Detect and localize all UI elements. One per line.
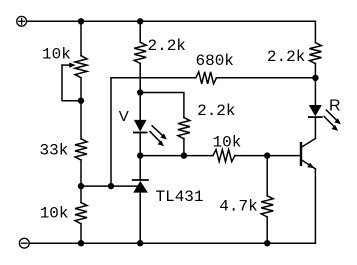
node 2.2k mid bottom: [181, 152, 187, 158]
wire left branch top: [80, 21, 82, 55]
wire: [266, 217, 268, 243]
node base: [264, 152, 270, 158]
node ref left: [78, 183, 84, 189]
wire V branch top: [139, 21, 141, 42]
wire top rail: [27, 21, 315, 42]
node ref mid: [108, 183, 114, 189]
wire: [139, 193, 141, 244]
node 680k right: [312, 75, 318, 81]
node bottom-left: [78, 240, 84, 246]
svg-text:4.7k: 4.7k: [219, 197, 257, 215]
node top-mid: [137, 18, 143, 24]
wire 4.7k branch: [266, 156, 268, 196]
wire row to base: [140, 155, 213, 157]
resistor R3 10k lower: [75, 203, 87, 224]
svg-text:10k: 10k: [42, 46, 71, 64]
wire: [183, 139, 185, 156]
resistor R9 2.2k right: [309, 43, 321, 64]
potentiometer wiper: [62, 63, 81, 101]
svg-text:680k: 680k: [196, 52, 234, 70]
wire: [80, 160, 82, 203]
wire: [80, 78, 82, 139]
wire 680k feedback branch: [111, 78, 196, 186]
minus terminal: [19, 238, 29, 248]
svg-text:10k: 10k: [213, 133, 242, 151]
node bottom-mid: [137, 240, 143, 246]
wire TL431 ref: [81, 185, 138, 187]
wire: [139, 133, 141, 181]
resistor R1 10k potentiometer: [75, 56, 87, 78]
wire bottom rail: [30, 169, 316, 243]
resistor R5 2.2k upper-left: [134, 42, 146, 63]
resistor R8 4.7k: [261, 196, 273, 217]
resistor R6 2.2k middle: [178, 118, 190, 139]
svg-text:2.2k: 2.2k: [197, 102, 235, 120]
wire: [235, 155, 301, 157]
svg-text:2.2k: 2.2k: [267, 48, 305, 66]
node dots: [78, 18, 319, 246]
LED D2 R: [309, 105, 341, 131]
wire: [314, 64, 316, 105]
wire: [80, 224, 82, 244]
resistor R7 10k horizontal: [213, 150, 235, 162]
wire: [314, 117, 316, 138]
LED D1 V: [134, 120, 167, 146]
wire: [217, 77, 316, 79]
svg-text:TL431: TL431: [156, 188, 204, 206]
node pot bottom: [78, 98, 84, 104]
resistor R4 680k: [196, 72, 217, 84]
transistor Q1: [301, 139, 315, 169]
node V bottom: [137, 152, 143, 158]
plus terminal: [17, 16, 27, 26]
wire: [139, 63, 141, 120]
node top-left: [78, 18, 84, 24]
wire middle 2.2k branch: [140, 93, 184, 118]
svg-text:10k: 10k: [40, 204, 69, 222]
regulator U1 TL431: [133, 180, 148, 193]
svg-text:2.2k: 2.2k: [148, 37, 186, 55]
node bottom-right: [264, 240, 270, 246]
svg-text:33k: 33k: [40, 142, 69, 160]
node V top: [137, 89, 143, 95]
svg-text:R: R: [329, 98, 341, 115]
svg-text:V: V: [119, 108, 129, 125]
resistor R2 33k: [75, 139, 87, 160]
